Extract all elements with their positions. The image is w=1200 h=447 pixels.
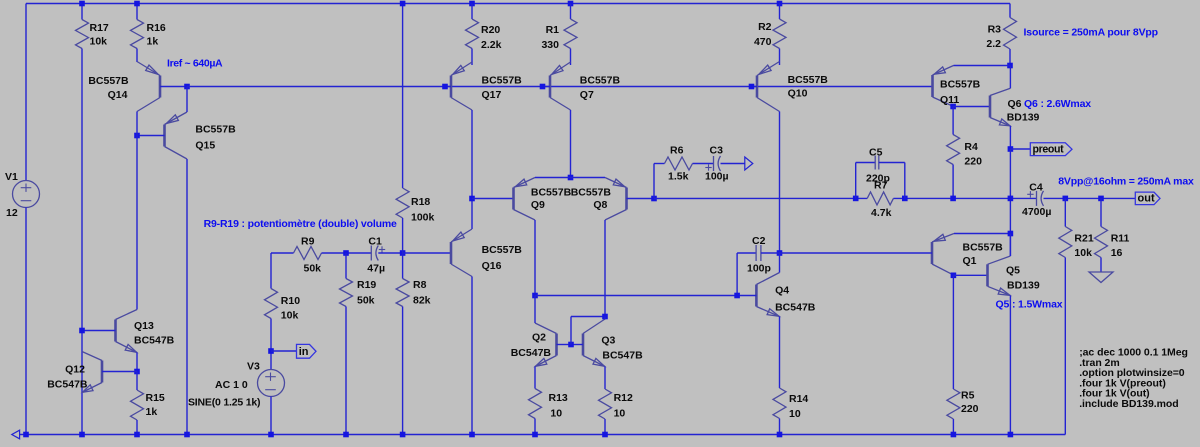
junction preout node: [1008, 146, 1014, 152]
wire Q5 collector up: [1009, 234, 1011, 257]
wire Q2 emitter to R13: [534, 367, 536, 389]
ground-return arrow at left end of bottom rail: [12, 430, 20, 439]
junction R21 top: [1063, 196, 1069, 202]
wire R9 left lead: [271, 252, 294, 254]
spice directives: [1079, 347, 1188, 410]
svg-text:Q6: Q6: [1008, 98, 1022, 110]
svg-text:C3: C3: [710, 145, 724, 157]
svg-text:BC547B: BC547B: [134, 335, 175, 347]
svg-text:Q15: Q15: [195, 140, 215, 152]
svg-text:2.2: 2.2: [986, 38, 1001, 50]
svg-text:10k: 10k: [90, 36, 108, 48]
wire V3 bottom: [270, 397, 272, 435]
svg-text:BC557B: BC557B: [571, 187, 612, 199]
wire R4 top lead: [952, 107, 954, 135]
svg-text:R17: R17: [90, 22, 109, 34]
svg-text:R10: R10: [281, 295, 300, 307]
svg-text:R4: R4: [964, 141, 978, 153]
svg-text:R8: R8: [413, 279, 427, 291]
junction Q5 rail: [1008, 432, 1014, 438]
svg-text:4.7k: 4.7k: [871, 207, 892, 219]
junction Q1 emitter node: [1008, 231, 1014, 237]
resistor R20: [466, 19, 479, 49]
resistor R17: [76, 20, 89, 49]
wire R18 bottom lead: [402, 218, 404, 253]
wire Q4 collector up: [779, 253, 781, 273]
svg-text:R5: R5: [961, 390, 975, 402]
wire Q17 collector down: [471, 110, 473, 229]
junction Q2/Q3 bases: [568, 342, 574, 348]
svg-text:AC 1 0: AC 1 0: [215, 379, 248, 391]
svg-text:R18: R18: [411, 196, 430, 208]
svg-text:V3: V3: [247, 361, 260, 373]
svg-text:1.5k: 1.5k: [668, 171, 689, 183]
wire feedback line left: [654, 197, 867, 199]
junction top rail R2: [777, 1, 783, 7]
net flag in: [297, 344, 317, 358]
wire bottom ground rail: [20, 434, 1066, 436]
junction Q11 collector / Q6 base / R4: [950, 104, 956, 110]
svg-text:82k: 82k: [413, 295, 431, 307]
svg-text:220: 220: [964, 156, 982, 168]
svg-text:Q5: Q5: [1006, 265, 1020, 277]
wire R10 bottom to V3: [270, 319, 272, 370]
junction top rail R20: [469, 1, 475, 7]
transistor Q11 BC557B: [931, 75, 934, 97]
svg-text:Q3: Q3: [601, 335, 615, 347]
junction in-node: [268, 348, 274, 354]
wire R19 top lead: [345, 253, 347, 279]
transistor Q15 BC557B: [163, 125, 166, 147]
wire C3 to arrow: [721, 163, 745, 165]
junction R15 rail: [134, 432, 140, 438]
wire R21 top lead: [1064, 198, 1066, 226]
svg-text:C5: C5: [869, 147, 883, 159]
wire R2 to Q10 emitter: [779, 49, 781, 66]
wire Q6 base: [953, 106, 990, 108]
svg-text:220: 220: [961, 403, 979, 415]
svg-text:BC547B: BC547B: [775, 302, 816, 314]
resistor R2: [773, 19, 786, 49]
junction R14 rail: [777, 432, 783, 438]
junction Q9/Q2 collector node: [532, 293, 538, 299]
wire Q5 base: [953, 274, 987, 276]
svg-text:R16: R16: [147, 22, 166, 34]
svg-text:Q2: Q2: [532, 332, 546, 344]
wire Q8 collector down: [604, 220, 606, 317]
junction Q14 base / Q15 emitter node: [184, 84, 190, 90]
resistor R12: [599, 389, 612, 419]
wire R8 top lead: [402, 253, 404, 279]
svg-text:10: 10: [550, 408, 562, 420]
resistor R21: [1059, 227, 1072, 258]
resistor R10: [265, 289, 278, 319]
net flag out: [1135, 192, 1160, 205]
svg-text:R13: R13: [549, 392, 568, 404]
wire node to Q16 base: [403, 252, 451, 254]
svg-text:BC557B: BC557B: [788, 74, 829, 86]
svg-text:1k: 1k: [147, 36, 159, 48]
junction Q8 base node: [651, 196, 657, 202]
wire Q1 emitter line: [954, 233, 1010, 235]
svg-text:R9-R19 : potentiomètre (double: R9-R19 : potentiomètre (double) volume: [204, 218, 397, 230]
wire R12 bottom: [604, 419, 606, 435]
junction V3 rail: [268, 432, 274, 438]
wire R15 bottom lead: [136, 420, 138, 435]
transistor Q2 BC547B: [555, 334, 558, 356]
junction C5 left: [853, 196, 859, 202]
junction R12 rail: [602, 432, 608, 438]
wire Q14 collector to Q13 collector: [136, 112, 138, 310]
junction R4 out line: [950, 196, 956, 202]
svg-text:R12: R12: [614, 392, 633, 404]
junction C5 right: [902, 196, 908, 202]
svg-text:1k: 1k: [146, 406, 158, 418]
wire to in flag: [271, 350, 297, 352]
wire C5 right stub: [879, 163, 905, 199]
capacitor C2: [755, 245, 757, 261]
wire feedback line right: [893, 197, 1036, 199]
svg-text:Q6 : 2.6Wmax: Q6 : 2.6Wmax: [1024, 98, 1091, 110]
wire R14 bottom: [779, 419, 781, 435]
transistor Q16 BC557B: [450, 242, 453, 264]
wire base tie to Q3 collector: [571, 316, 605, 318]
svg-text:Q16: Q16: [482, 260, 502, 272]
svg-text:C4: C4: [1029, 182, 1043, 194]
wire R2 top lead: [779, 4, 781, 20]
plus sign C1: [379, 249, 385, 251]
svg-text:47µ: 47µ: [367, 263, 385, 275]
wire R9 right lead: [322, 252, 372, 254]
voltage source V3: [258, 370, 285, 397]
wire R5 top lead: [952, 275, 954, 389]
svg-text:16: 16: [1111, 247, 1123, 259]
transistor Q17 BC557B: [450, 76, 453, 98]
wire Q3 collector stub: [604, 317, 606, 320]
wire R1 to Q7 emitter: [570, 49, 572, 66]
wire C4 right: [1044, 197, 1136, 199]
svg-text:Q11: Q11: [940, 94, 959, 106]
junction R19 rail: [343, 432, 349, 438]
wire up to R6: [654, 164, 665, 199]
svg-text:R15: R15: [146, 392, 165, 404]
svg-text:10k: 10k: [281, 310, 299, 322]
wire R5 bottom lead: [952, 419, 954, 435]
wire R16 to Q14 emitter: [136, 49, 138, 63]
transistor Q9 BC557B: [512, 188, 515, 210]
svg-text:Q14: Q14: [108, 89, 128, 101]
svg-text:Iref ~ 640µA: Iref ~ 640µA: [167, 58, 223, 70]
svg-text:Q12: Q12: [65, 364, 85, 376]
svg-text:BC557B: BC557B: [88, 75, 129, 87]
svg-text:12: 12: [6, 207, 18, 219]
svg-text:R20: R20: [481, 24, 500, 36]
wire Q16 collector down: [471, 277, 473, 435]
wire R10 top lead: [270, 253, 272, 289]
resistor R16: [131, 20, 144, 49]
resistor R14: [773, 388, 786, 419]
svg-text:100p: 100p: [747, 263, 771, 275]
junction V1-ground rail: [23, 432, 29, 438]
svg-text:BC557B: BC557B: [482, 75, 523, 87]
junction R5 rail: [951, 432, 957, 438]
wire C5 left stub: [856, 163, 876, 199]
transistor Q13 BC547B: [114, 320, 117, 342]
wire Q3 emitter to R12: [604, 367, 606, 390]
svg-text:Q7: Q7: [580, 89, 594, 101]
wire R18 from top rail: [402, 4, 404, 189]
junction R13 rail: [532, 432, 538, 438]
junction R8 rail: [400, 432, 406, 438]
wire R1 top lead: [570, 4, 572, 20]
svg-text:C1: C1: [368, 236, 382, 248]
wire Q8 emitter to tail: [571, 177, 606, 179]
junction top rail R17: [79, 1, 85, 7]
svg-text:in: in: [299, 346, 309, 358]
resistor R11: [1095, 227, 1108, 258]
svg-text:100k: 100k: [411, 212, 435, 224]
wire Q15 collector down: [186, 159, 188, 435]
wire to preout flag: [1010, 148, 1030, 150]
plus sign C3: [705, 167, 711, 169]
junction Q13 base on R17 run: [79, 328, 85, 334]
svg-text:100µ: 100µ: [705, 171, 729, 183]
junction R9/R19/C1 node: [343, 250, 349, 256]
wire Q5 emitter down: [1009, 296, 1011, 435]
svg-text:BC557B: BC557B: [531, 187, 572, 199]
svg-text:BC547B: BC547B: [47, 379, 88, 391]
wire R17 bottom run: [81, 49, 83, 435]
junction Q4 base node: [734, 293, 740, 299]
svg-text:R14: R14: [789, 393, 808, 405]
capacitor C4: [1036, 191, 1038, 206]
svg-text:Q17: Q17: [482, 89, 502, 101]
transistor Q3 BC547B: [582, 334, 585, 356]
wire Q7 collector to diff pair: [570, 110, 572, 178]
svg-text:R11: R11: [1111, 233, 1130, 245]
svg-text:R6: R6: [670, 145, 684, 157]
svg-text:SINE(0 1.25 1k): SINE(0 1.25 1k): [188, 397, 260, 409]
wire Q2 collector up: [534, 296, 536, 324]
wire PNP mirror base line: [187, 86, 933, 88]
wire Q9-collector line to Q4 base: [535, 295, 737, 297]
svg-text:4700µ: 4700µ: [1022, 206, 1051, 218]
svg-text:Q4: Q4: [775, 285, 789, 297]
wire R8 bottom: [402, 307, 404, 435]
svg-text:.include BD139.mod: .include BD139.mod: [1079, 398, 1178, 410]
wire R20 to Q17 emitter: [471, 49, 473, 66]
svg-text:10k: 10k: [1074, 247, 1092, 259]
svg-text:BC557B: BC557B: [963, 242, 1004, 254]
transistor Q7 BC557B: [549, 76, 552, 98]
svg-text:R2: R2: [758, 21, 772, 33]
transistor Q14 BC557B: [159, 76, 162, 98]
svg-text:10: 10: [614, 408, 626, 420]
wire base tie up: [570, 317, 572, 345]
wire R20 top lead: [471, 4, 473, 20]
wire Q9 emitter to tail: [535, 177, 571, 179]
wire R19 bottom: [345, 307, 347, 435]
capacitor C1: [370, 246, 372, 261]
wire C2 left loop: [737, 253, 756, 296]
junction C1/R8/R18 node: [400, 250, 406, 256]
wire R15 top lead: [136, 372, 138, 391]
svg-text:R21: R21: [1074, 233, 1093, 245]
svg-text:220p: 220p: [866, 173, 890, 185]
svg-text:330: 330: [541, 39, 559, 51]
svg-text:R3: R3: [988, 24, 1002, 36]
junction Q1 collector / Q5 base / R5: [951, 273, 957, 279]
wire Q6 collector up: [1009, 66, 1011, 89]
transistor Q6 BD139: [989, 96, 992, 118]
svg-text:50k: 50k: [357, 295, 375, 307]
junction R17 rail bottom: [79, 432, 85, 438]
svg-text:out: out: [1138, 192, 1155, 204]
svg-text:BD139: BD139: [1007, 280, 1040, 292]
resistor R3: [1004, 18, 1017, 50]
junction Q17 base: [442, 84, 448, 90]
wire preout down to out node: [1009, 149, 1011, 256]
svg-text:BC557B: BC557B: [580, 75, 621, 87]
junction Q15 base on Q14 collector line: [134, 133, 140, 139]
junction out node: [1008, 196, 1014, 202]
svg-text:BC557B: BC557B: [195, 124, 236, 136]
junction Q13 emitter / Q12 base / R15: [134, 369, 140, 375]
svg-text:Q13: Q13: [134, 320, 154, 332]
resistor R4: [947, 135, 960, 165]
svg-text:Q9: Q9: [531, 199, 545, 211]
ground symbol under R11: [1089, 272, 1113, 283]
wire Q8 base to feedback node: [627, 198, 655, 200]
wire Q6 emitter down to preout: [1009, 126, 1011, 149]
wire Q4 emitter to R14: [779, 317, 781, 389]
transistor Q12 BC547B: [101, 361, 104, 383]
svg-text:BC547B: BC547B: [511, 347, 552, 359]
svg-text:10: 10: [789, 408, 801, 420]
wire C2 right lead: [761, 252, 780, 254]
wire Q11 emitter line: [954, 65, 1011, 67]
junction diff pair emitters: [568, 175, 574, 181]
resistor R7: [867, 192, 893, 205]
svg-text:Q5 : 1.5Wmax: Q5 : 1.5Wmax: [996, 299, 1063, 311]
wire Q10 collector down: [779, 112, 781, 254]
svg-text:Q10: Q10: [788, 88, 808, 100]
svg-text:Q8: Q8: [593, 199, 607, 211]
junction top rail R1: [568, 1, 574, 7]
svg-text:C2: C2: [752, 235, 766, 247]
wire Q9 base: [472, 198, 514, 200]
resistor R13: [529, 389, 542, 419]
dangling arrow after C3: [745, 157, 753, 170]
svg-text:R1: R1: [546, 24, 560, 36]
wire R6 to C3: [693, 163, 714, 165]
capacitor C5: [874, 156, 876, 170]
wire C1 to R8 node: [378, 252, 402, 254]
net flag preout: [1030, 143, 1072, 156]
resistor R15: [131, 390, 144, 420]
wire R11 bottom lead: [1100, 258, 1102, 273]
wire R3 bottom lead: [1009, 49, 1011, 66]
wire R4 bottom lead: [952, 165, 954, 199]
transistor Q5 BD139: [986, 264, 989, 286]
svg-text:preout: preout: [1033, 143, 1065, 155]
junction Q7 base: [540, 84, 546, 90]
wire Q9 collector down: [534, 220, 536, 296]
svg-text:BC547B: BC547B: [602, 350, 643, 362]
resistor R9: [294, 247, 322, 260]
wire Q15 emitter up: [186, 87, 188, 113]
resistor R6: [665, 157, 693, 170]
resistor R1: [564, 19, 577, 49]
junction top rail R16: [134, 1, 140, 7]
svg-text:2.2k: 2.2k: [481, 39, 502, 51]
junction top rail R18: [400, 1, 406, 7]
svg-text:BC557B: BC557B: [482, 244, 523, 256]
plus sign C4: [1027, 193, 1033, 195]
junction Q3 collector node: [602, 314, 608, 320]
wire R16 top lead: [136, 4, 138, 20]
transistor Q10 BC557B: [756, 76, 759, 98]
transistor Q1 BC557B: [931, 242, 934, 264]
wire Q13 emitter to R15: [136, 353, 138, 372]
svg-text:V1: V1: [5, 171, 18, 183]
svg-text:Q1: Q1: [963, 255, 977, 267]
svg-text:BD139: BD139: [1007, 112, 1040, 124]
junction Q10 collector / C2 / VAS out: [777, 250, 783, 256]
svg-text:R9: R9: [301, 236, 315, 248]
junction R3 / Q11 emitter / Q6 collector: [1007, 63, 1013, 69]
svg-text:Isource = 250mA pour 8Vpp: Isource = 250mA pour 8Vpp: [1024, 27, 1158, 39]
wire VAS node to Q1 base: [780, 252, 932, 254]
wire top rail right corner to R3: [1009, 4, 1011, 18]
resistor R8: [396, 279, 409, 307]
wire R21 bottom run: [1064, 258, 1066, 435]
svg-text:50k: 50k: [304, 263, 322, 275]
wire R17 top lead: [81, 4, 83, 20]
capacitor C3: [713, 156, 715, 171]
svg-text:BC557B: BC557B: [940, 79, 981, 91]
wire V1 bottom: [25, 208, 27, 435]
wire top +12V rail: [26, 3, 1010, 5]
svg-text:8Vpp@16ohm = 250mA max: 8Vpp@16ohm = 250mA max: [1058, 176, 1194, 188]
wire R11 top lead: [1100, 198, 1102, 226]
junction Q15 collector rail: [184, 432, 190, 438]
svg-text:R19: R19: [357, 279, 376, 291]
wire R13 bottom: [534, 419, 536, 435]
resistor R19: [340, 279, 353, 307]
transistor Q4 BC547B: [755, 285, 758, 307]
junction Q10 base: [749, 84, 755, 90]
junction R11 top: [1098, 196, 1104, 202]
voltage source V1: [13, 181, 40, 208]
junction Q16 collector rail: [469, 432, 475, 438]
junction Q9 base tap: [469, 196, 475, 202]
resistor R5: [947, 389, 960, 419]
resistor R18: [396, 188, 409, 218]
svg-text:470: 470: [754, 36, 772, 48]
transistor Q8 BC557B: [625, 188, 628, 210]
wire V1 top: [25, 4, 27, 181]
